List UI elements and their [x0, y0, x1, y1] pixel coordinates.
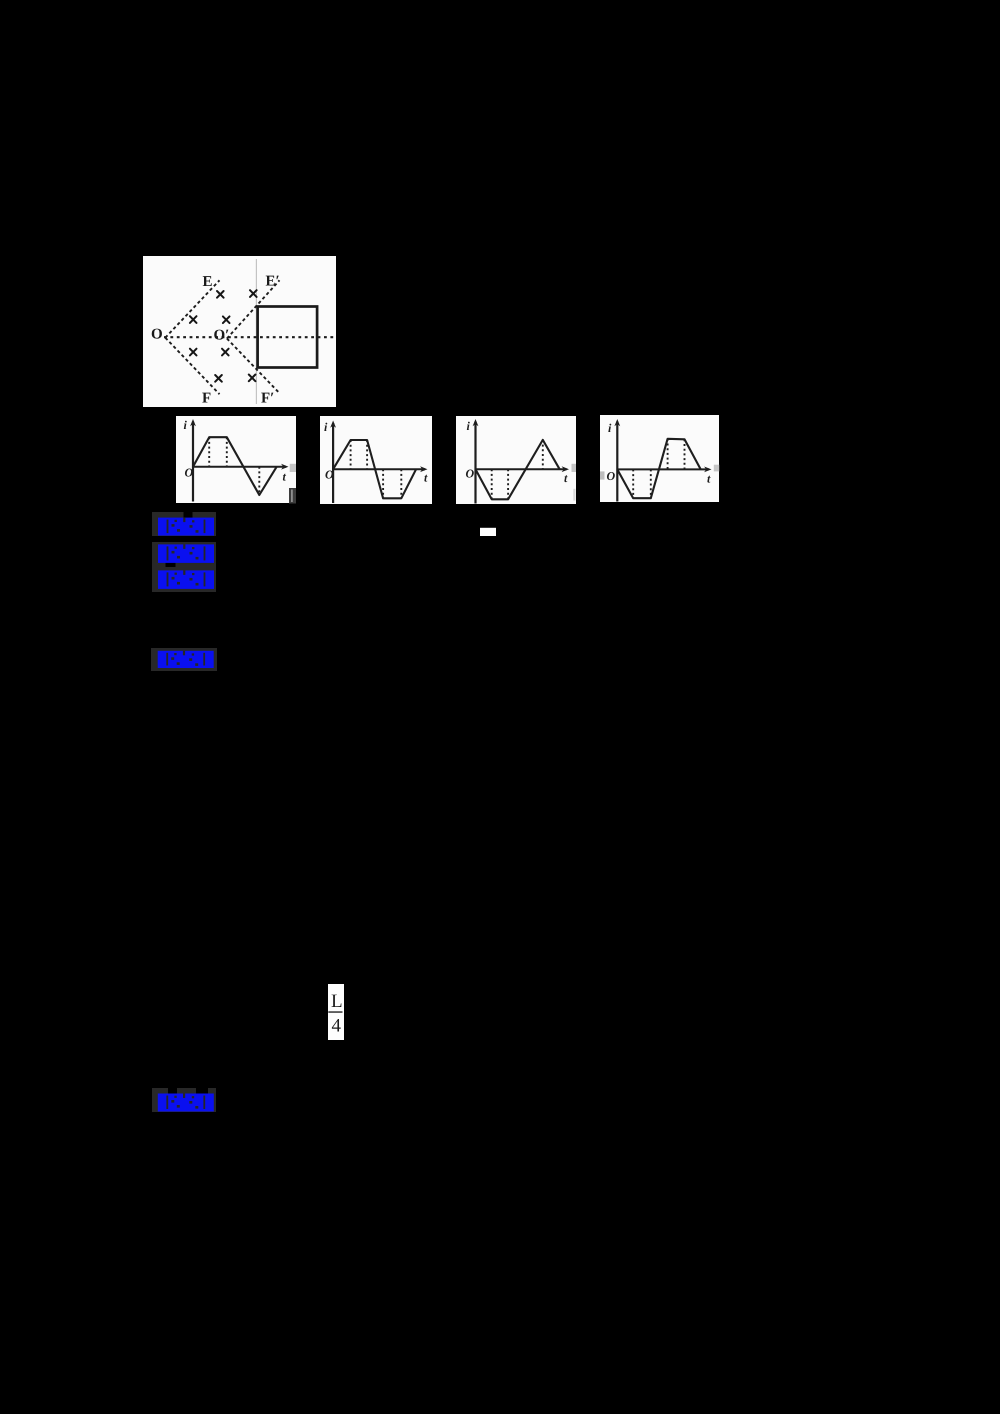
graph A label i — [184, 418, 188, 432]
fraction L/4 panel — [328, 984, 344, 1040]
graph A edge artifact marks — [289, 464, 296, 504]
graph A waveform: positive trapezoid then negative triangle — [193, 437, 277, 495]
dashed boundary O'F' — [227, 339, 280, 394]
tag 4 blue text (jieda) — [158, 651, 214, 668]
svg-text:O: O — [466, 467, 475, 481]
fraction bar — [328, 1011, 342, 1013]
graph D time axis (horizontal) — [617, 467, 711, 473]
field cross x8 — [249, 375, 256, 382]
graph B label t — [424, 471, 428, 485]
svg-text:E: E — [203, 274, 213, 290]
svg-text:O′: O′ — [214, 328, 230, 344]
graph A label t — [283, 470, 287, 484]
graph D dotted guide lines — [633, 439, 684, 498]
graph D label i — [608, 421, 612, 435]
tag 5 highlight box — [152, 1088, 216, 1112]
svg-text:4: 4 — [332, 1016, 342, 1037]
label O' — [214, 328, 230, 344]
tag 3 highlight box — [152, 567, 216, 592]
fraction numerator L — [331, 991, 343, 1012]
graph A time axis (horizontal) — [193, 464, 289, 470]
graph D label t — [707, 472, 711, 486]
graph A dotted guide lines — [209, 437, 259, 495]
graph D label O — [607, 469, 616, 483]
graph C label i — [467, 419, 471, 433]
dashed boundary OE — [165, 280, 219, 337]
svg-text:O: O — [185, 466, 194, 480]
label F' — [261, 391, 274, 407]
tag 1 blue text (kaodian) — [158, 518, 214, 536]
graph C waveform: negative trapezoid then positive triangle — [476, 440, 560, 499]
svg-text:O: O — [325, 468, 334, 482]
label E — [203, 274, 213, 290]
graph A panel — [176, 416, 296, 503]
field cross x4 — [223, 316, 230, 323]
field cross x6 — [222, 349, 229, 356]
square coil — [258, 307, 318, 368]
figure panel: magnetic field regions diagram — [143, 256, 336, 407]
answer blank (white rectangle) — [480, 528, 496, 536]
field cross x5 — [190, 349, 197, 356]
tag 1 highlight box — [152, 512, 216, 536]
graph C panel — [456, 416, 576, 504]
field cross x7 — [215, 375, 222, 382]
tag 2 blue text (zhuanti) — [158, 544, 214, 563]
graph D edge artifact marks — [600, 465, 719, 480]
fraction denominator 4 — [332, 1016, 342, 1037]
label F — [202, 391, 211, 407]
graph C label t — [564, 471, 568, 485]
svg-text:O: O — [607, 469, 616, 483]
label O — [151, 327, 163, 343]
label E' — [266, 274, 280, 290]
tag 5 blue text (dianping) — [158, 1094, 214, 1112]
graph B panel — [320, 416, 432, 504]
graph D panel — [600, 415, 719, 502]
graph C label O — [466, 467, 475, 481]
graph A label O — [185, 466, 194, 480]
graph C current axis (vertical) — [473, 419, 479, 504]
svg-text:E′: E′ — [266, 274, 280, 290]
tag 3 blue text (fenxi) — [158, 570, 214, 589]
graph B label O — [325, 468, 334, 482]
tag 4 highlight box — [151, 648, 217, 671]
graph B waveform: positive trapezoid then negative trapezoid — [333, 440, 416, 498]
dotted center axis OO' — [164, 336, 335, 338]
graph B label i — [324, 420, 328, 434]
dashed boundary OF — [165, 338, 219, 395]
svg-text:O: O — [151, 327, 163, 343]
graph A current axis (vertical) — [190, 419, 196, 502]
graph C dotted guide lines — [492, 440, 543, 499]
field cross x1 — [217, 291, 224, 298]
tag 2 highlight box — [152, 542, 216, 568]
svg-text:F′: F′ — [261, 391, 274, 407]
field cross x2 — [250, 290, 257, 297]
svg-text:L: L — [331, 991, 343, 1012]
graph C time axis (horizontal) — [476, 466, 570, 472]
field cross x3 — [190, 316, 197, 323]
graph B current axis (vertical) — [330, 421, 336, 504]
graph D waveform: negative trapezoid then positive trapezoid — [617, 439, 700, 498]
boundary line (faint vertical) — [255, 259, 257, 404]
dashed boundary O'E' — [227, 280, 280, 338]
graph B dotted guide lines — [351, 440, 402, 498]
graph D current axis (vertical) — [614, 419, 620, 502]
graph B time axis (horizontal) — [333, 466, 427, 472]
svg-text:F: F — [202, 391, 211, 407]
graph C edge artifact marks — [572, 464, 577, 501]
